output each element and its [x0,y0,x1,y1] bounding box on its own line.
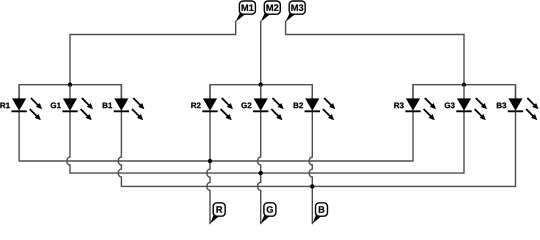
net flag M1 [236,1,256,22]
LED R1 [11,85,42,121]
junction group1 anode at G1 [68,83,72,87]
wire group2 anode bus R2-G2-B2 [210,85,312,99]
wire B net bus: B1 cathode (hops over R and G buses) across to B3 cathode [118,111,515,186]
label G1 [51,103,61,109]
wire group3 anode bus R3-G3-B3 [413,85,516,99]
wire B2 cathode down to flag B, hops over R and G buses [309,111,312,223]
junction R net at R2 [208,159,212,163]
LED G2 [253,85,284,121]
LED B2 [305,85,336,121]
wire group1 anode bus R1-G1-B1 [19,85,121,99]
LED G3 [456,85,487,121]
label R1 [0,103,9,109]
wire M2 net: flag M2 straight down to G2 anode [260,22,262,99]
LED G1 [62,85,93,121]
junction G net at G2 [259,171,263,175]
wire G net bus: G1 cathode (hop over R bus) across to G3 cathode [67,111,464,173]
label B2 [294,103,303,109]
junction group2 anode at G2 [259,83,263,87]
LED B3 [508,85,539,121]
wire M3 net: flag M3 down, right, down to group3 anode bus [286,22,464,85]
net flag G [261,203,276,224]
wire G2 cathode down to flag G, hops over R and B buses [258,111,261,223]
label R2 [191,103,200,109]
wire R2 cathode down to flag R, hops over G and B buses [207,111,210,223]
label G2 [241,103,251,109]
net flag R [210,203,225,224]
label B1 [103,103,112,109]
net flag M3 [286,1,306,22]
junction group3 anode at G3 [462,83,466,87]
wire R net bus: R1 cathode across to R3 cathode [19,111,413,161]
LED B1 [114,85,145,121]
LED R2 [202,85,233,121]
net flag B [312,203,327,224]
LED R3 [405,85,436,121]
net flag M2 [261,1,281,22]
label R3 [394,103,403,109]
label G3 [445,103,455,109]
label B3 [497,103,506,109]
wire M1 net: flag M1 down, left, down to group1 anode bus [70,22,236,85]
junction B net at B2 [310,184,314,188]
